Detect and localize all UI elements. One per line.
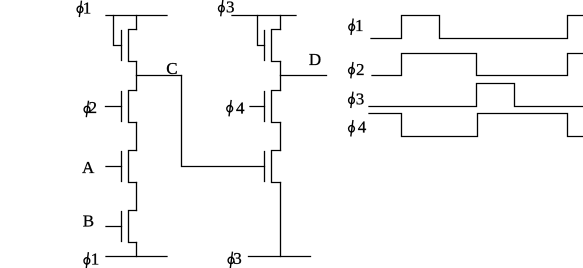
- wire: M4 source to phi1 return rail: [136, 243, 138, 257]
- svg-text:B: B: [83, 212, 94, 231]
- wire: M2 source to M3 drain: [136, 123, 138, 151]
- label phi4: [227, 98, 245, 117]
- wire: node D down to M6 drain: [280, 76, 282, 91]
- transistor M3 (gate A): [122, 151, 137, 183]
- svg-text:1: 1: [355, 16, 364, 35]
- svg-text:1: 1: [83, 0, 92, 18]
- phi3 supply rail (top right): [232, 15, 296, 17]
- wire: M6 source to M7 drain: [280, 123, 282, 151]
- label phi3 (top supply, right stage): [219, 0, 235, 17]
- label phi4 (timing): [349, 118, 367, 137]
- svg-text:4: 4: [358, 118, 367, 137]
- label phi2 (timing): [349, 60, 365, 79]
- label phi3 (timing): [349, 90, 365, 109]
- transistor M6 (gate phi4): [265, 91, 281, 123]
- wire: A gate lead: [106, 166, 122, 168]
- svg-text:4: 4: [236, 98, 245, 117]
- wire: node C down to M2 drain: [136, 76, 138, 91]
- transistor M2 (gate phi2): [122, 91, 137, 123]
- label phi1 (bottom left): [84, 249, 99, 268]
- svg-text:3: 3: [226, 0, 235, 17]
- wire: node C down and right to M7 gate: [182, 76, 265, 167]
- svg-text:C: C: [166, 59, 177, 78]
- node D wire: [281, 75, 327, 77]
- label phi3 (bottom right): [228, 249, 242, 268]
- transistor M5 (precharge, gate tied to phi3 rail): [265, 30, 281, 62]
- wire: M5 drain to rail: [280, 16, 282, 30]
- svg-text:2: 2: [356, 60, 365, 79]
- wire: phi2 gate lead: [106, 106, 122, 108]
- node C wire: [137, 75, 182, 77]
- phi1 supply rail (top left): [106, 15, 167, 17]
- waveform phi3: [369, 84, 583, 107]
- wire: M7 source to phi3 return rail: [280, 183, 282, 257]
- svg-text:A: A: [82, 158, 95, 177]
- wire: M1 source down to node C: [136, 62, 138, 76]
- label phi1 (timing): [349, 16, 364, 35]
- waveform phi4: [369, 114, 583, 137]
- phi1 return rail (bottom left): [106, 256, 167, 258]
- waveform phi2: [372, 54, 583, 76]
- wire: M3 source to M4 drain: [136, 183, 138, 211]
- svg-text:3: 3: [356, 90, 365, 109]
- wire: B gate lead: [106, 226, 122, 228]
- svg-text:3: 3: [233, 249, 242, 268]
- wire: M5 gate tie to phi3 rail: [258, 16, 265, 46]
- wire: M1 gate tie to phi1 rail: [114, 16, 122, 46]
- wire: M1 drain to rail: [136, 16, 138, 30]
- label phi1 (top supply, left stage): [77, 0, 91, 18]
- label phi2: [84, 98, 97, 117]
- svg-text:1: 1: [91, 249, 100, 268]
- svg-text:2: 2: [89, 98, 98, 117]
- phi3 return rail (bottom right): [249, 256, 311, 258]
- wire: M5 source down to node D: [280, 62, 282, 76]
- transistor M7 (gate from node C): [265, 151, 281, 183]
- waveform phi1: [371, 16, 583, 39]
- transistor M1 (precharge, gate tied to phi1 rail): [122, 30, 137, 62]
- svg-text:D: D: [309, 50, 321, 69]
- transistor M4 (gate B): [122, 211, 137, 243]
- wire: phi4 gate lead: [250, 106, 265, 108]
